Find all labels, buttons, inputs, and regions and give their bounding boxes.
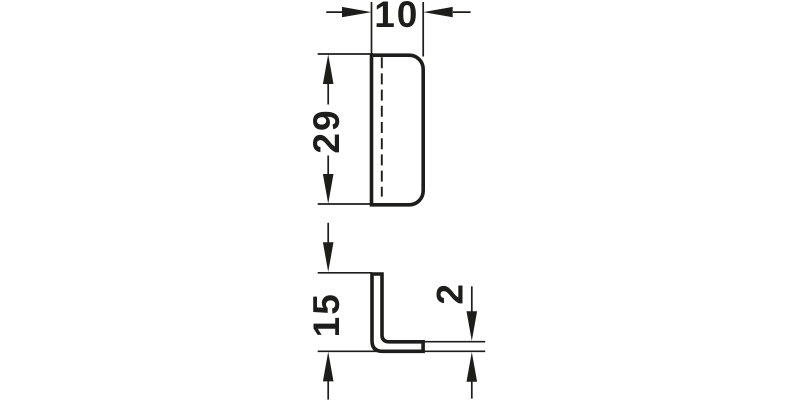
dim 29 top arrowhead: [323, 54, 334, 84]
extension line top of dim 29: [318, 53, 373, 55]
part outline: L-angle profile (section view): [372, 274, 423, 351]
svg-text:29: 29: [306, 108, 347, 153]
dim 29 bottom tail wire: [327, 156, 329, 176]
part outline: cap profile (top view): [372, 55, 424, 205]
dim 2 top arrowhead: [467, 311, 478, 341]
dim 2 bottom arrowhead: [467, 352, 478, 382]
dim 2 bottom tail wire: [471, 381, 473, 398]
extension line right of dim 10: [422, 2, 424, 57]
dim 2 top tail wire: [471, 286, 473, 312]
dim 15 top tail wire: [327, 223, 329, 244]
extension line top of dim 2: [425, 341, 486, 343]
svg-text:15: 15: [306, 292, 347, 337]
dim 10 left tail wire: [326, 11, 342, 13]
dim 15 bottom arrowhead: [323, 352, 334, 382]
dim 10 right arrowhead: [423, 7, 453, 17]
extension line left of dim 10: [371, 2, 373, 55]
dim 29 top tail wire: [327, 84, 329, 105]
hidden edge dashed line inside cap: [381, 57, 383, 196]
extension line top of dim 15: [318, 272, 372, 274]
dim 15 top arrowhead: [323, 242, 334, 272]
extension line bottom of dim 29: [318, 203, 373, 205]
svg-text:10: 10: [374, 0, 419, 35]
dim 10 right tail wire: [453, 11, 471, 13]
dim 15 bottom tail wire: [327, 381, 329, 400]
dim 29 bottom arrowhead: [323, 174, 334, 204]
svg-text:2: 2: [430, 284, 471, 305]
dim 10 left arrowhead: [342, 7, 372, 17]
shared bottom extension line for dims 15 and 2: [318, 350, 486, 352]
